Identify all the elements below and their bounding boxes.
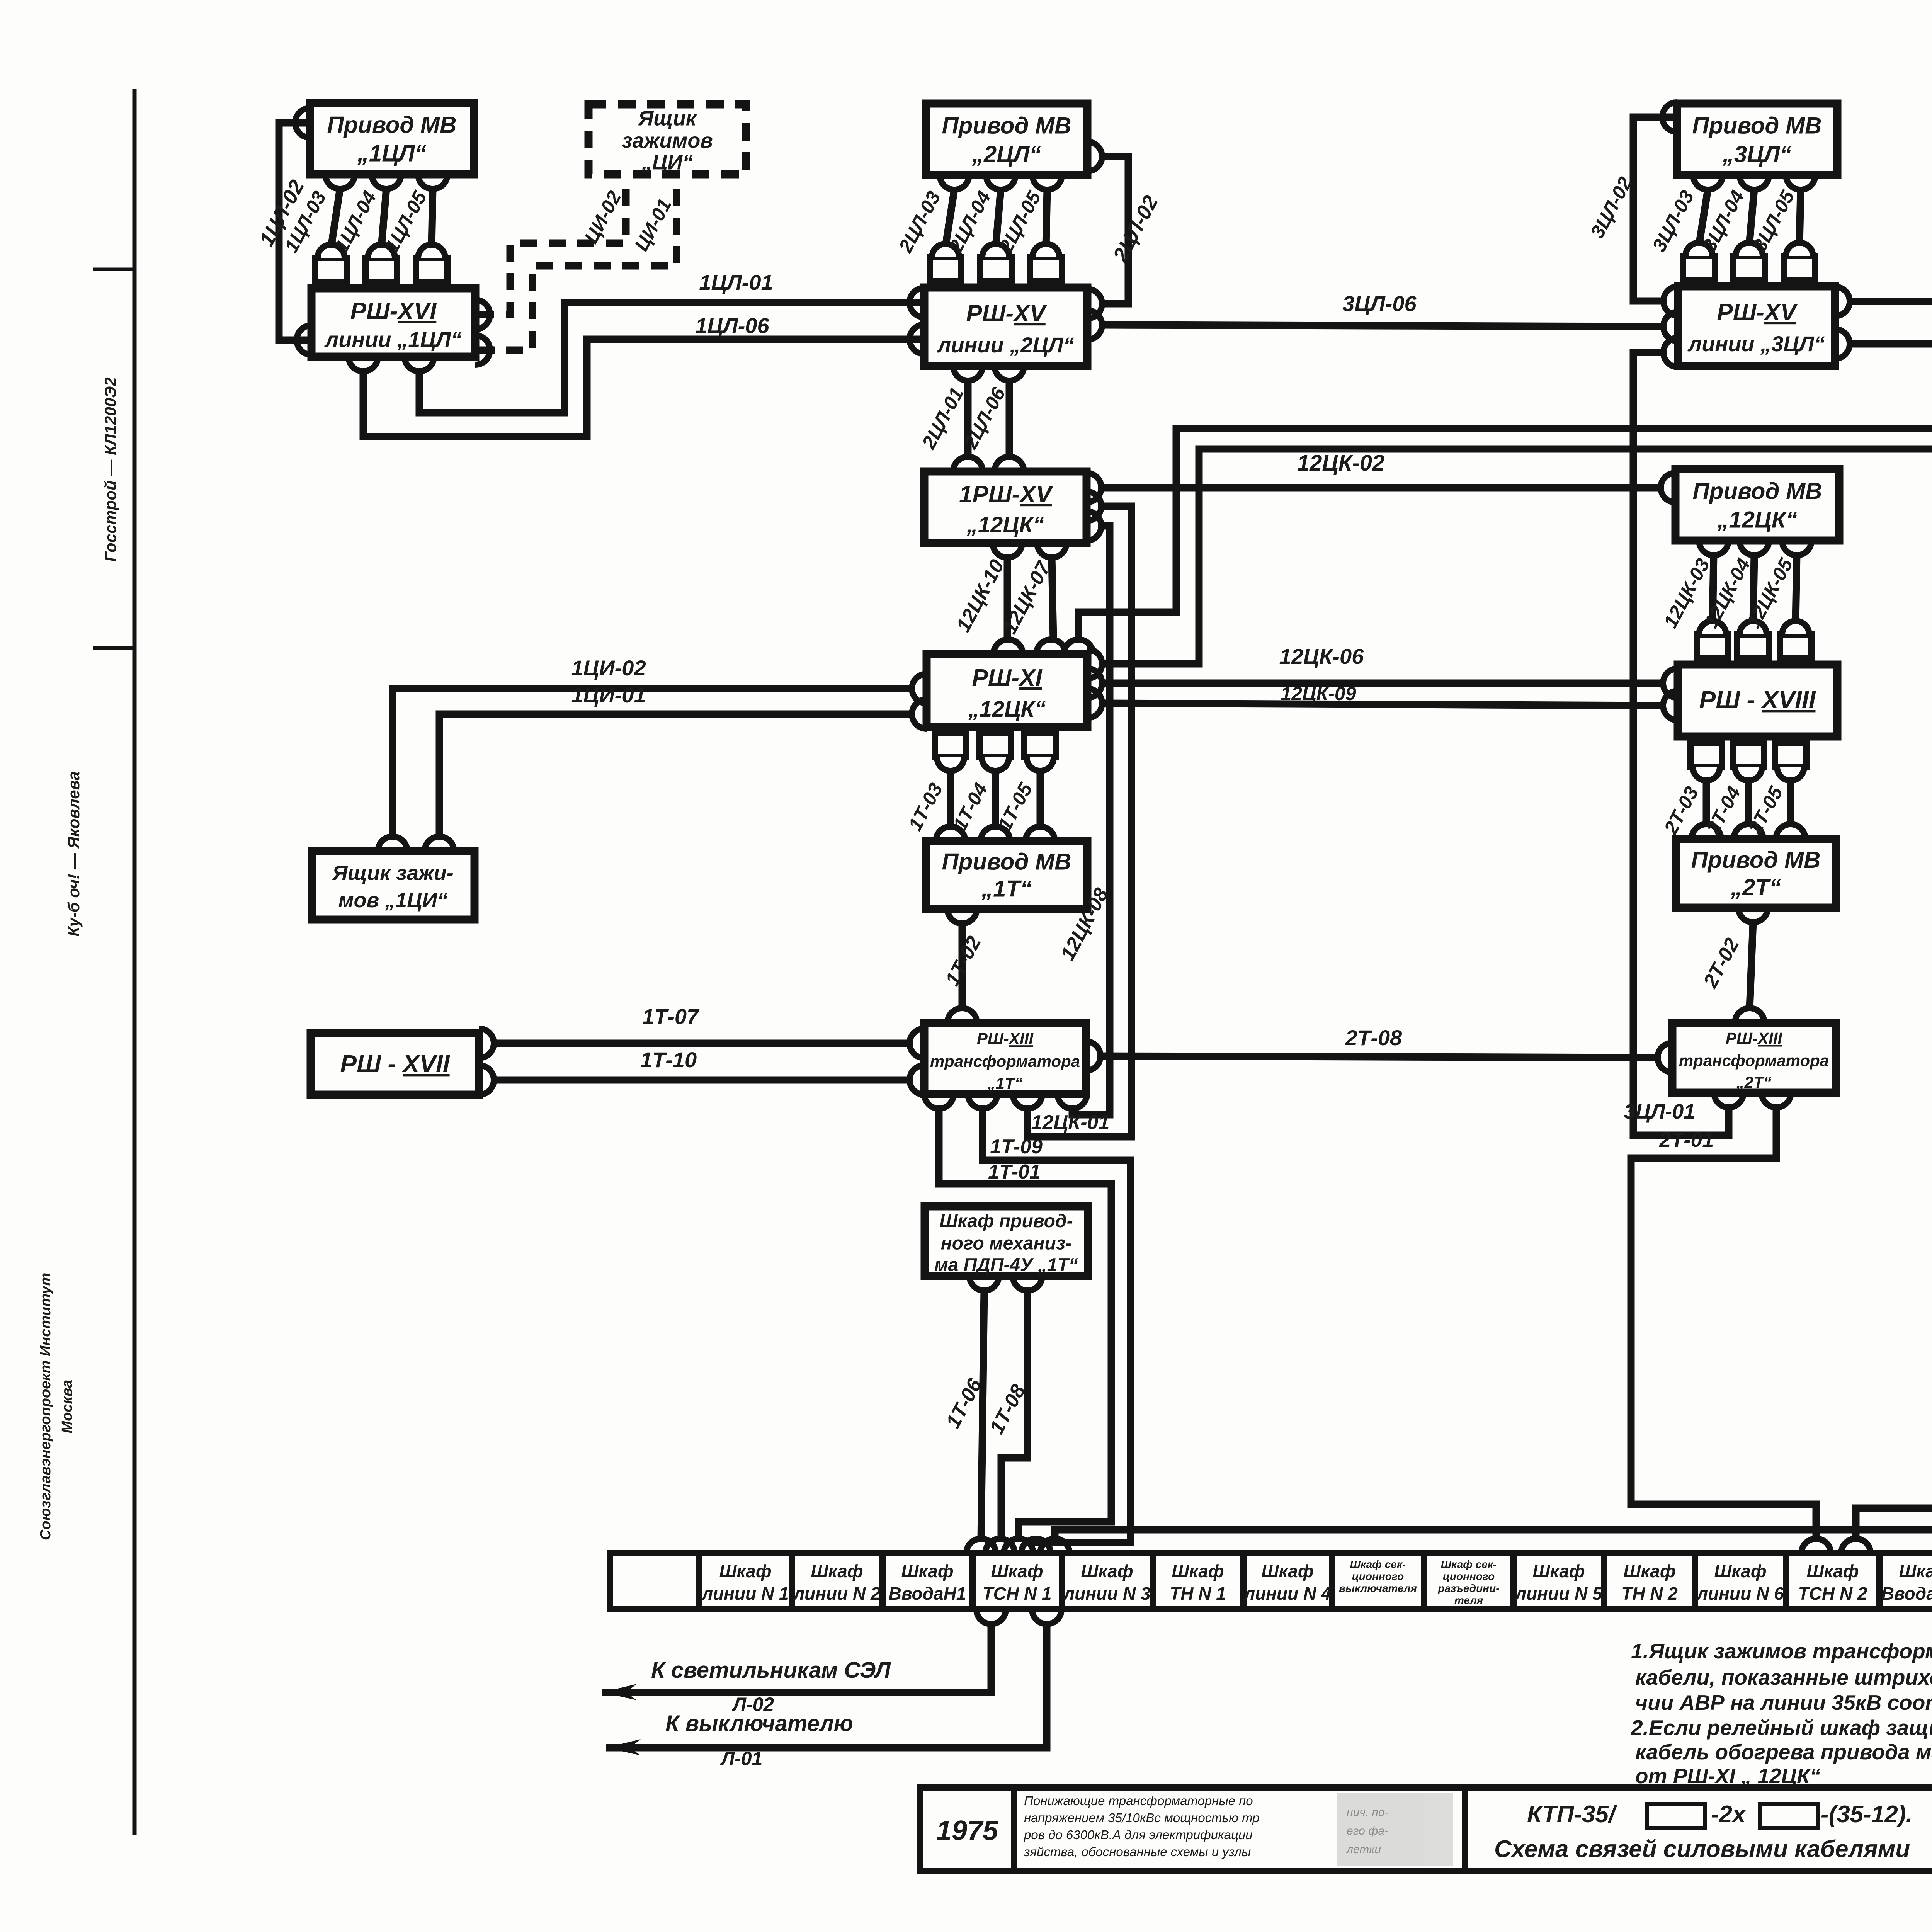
svg-text:Шкаф: Шкаф	[1899, 1561, 1932, 1581]
wire 1ЦЛ-06	[363, 339, 924, 437]
bump РШ-XVI 1ЦЛ left	[297, 325, 311, 355]
svg-text:его фа-: его фа-	[1347, 1825, 1388, 1837]
wire 2Т-08	[1100, 1056, 1658, 1058]
wire 1ЦЛ-02	[279, 123, 311, 340]
svg-text:ционного: ционного	[1443, 1570, 1495, 1582]
svg-text:линии N 3: линии N 3	[1063, 1583, 1150, 1604]
box РШ-XVIII	[1678, 665, 1837, 736]
bump Привод МВ 2ЦЛ right	[1087, 142, 1102, 171]
wire 1Т-06	[981, 1290, 984, 1539]
bumps Привод МВ 1Т top	[936, 827, 965, 841]
svg-text:выключателя: выключателя	[1339, 1582, 1417, 1594]
svg-text:ВводаН1: ВводаН1	[889, 1583, 966, 1604]
svg-text:летки: летки	[1346, 1843, 1381, 1856]
svg-text:РШ - XVIII: РШ - XVIII	[1699, 686, 1816, 714]
svg-text:линии N 5: линии N 5	[1514, 1583, 1602, 1604]
cell Шкаф ВводаН1	[889, 1561, 966, 1604]
cell Шкаф ТН N 1	[1170, 1561, 1226, 1604]
title block stamp smudge	[1337, 1793, 1453, 1866]
cell Шкаф ТСН N 1	[983, 1561, 1052, 1604]
cell Шкаф линии N 6	[1696, 1561, 1784, 1604]
svg-text:Москва: Москва	[59, 1380, 75, 1434]
svg-text:КТП-35/: КТП-35/	[1527, 1801, 1617, 1828]
cable lug + wire 3ЦЛ-04	[1698, 187, 1765, 280]
wire 2ЦИ-01 run	[1078, 429, 1932, 1022]
svg-text:1975: 1975	[936, 1815, 998, 1846]
svg-text:РШ-XV: РШ-XV	[1717, 299, 1798, 326]
bumps Шкаф ТСН N1 top	[966, 1539, 996, 1553]
box Привод МВ 2Т	[1676, 839, 1836, 908]
svg-text:„2Т“: „2Т“	[1736, 1073, 1771, 1091]
bumps Привод МВ 1ЦЛ bottom	[325, 174, 355, 189]
cable lug + wire 2ЦЛ-03	[895, 187, 961, 281]
wire 1Т-01	[939, 1108, 1111, 1539]
svg-text:разъедини-: разъедини-	[1437, 1582, 1499, 1594]
svg-text:линии N 6: линии N 6	[1696, 1583, 1784, 1604]
cable lug + wire 1Т-03	[904, 733, 966, 834]
svg-text:3ЦЛ-01: 3ЦЛ-01	[1624, 1100, 1696, 1123]
wire 3ЦЛ-01	[1633, 352, 1729, 1135]
bump Привод МВ 3ЦЛ left	[1662, 102, 1677, 132]
svg-text:Привод МВ: Привод МВ	[942, 113, 1071, 139]
svg-text:12ЦК-01: 12ЦК-01	[1031, 1111, 1110, 1134]
bumps РШ-XV 2ЦЛ left	[910, 288, 924, 317]
svg-text:кабель обогрева привода мас: кабель обогрева привода масляного выключ…	[1635, 1740, 1932, 1764]
svg-text:Ввода N 2: Ввода N 2	[1881, 1583, 1932, 1604]
box РШ-XIII трансформатора 1Т	[924, 1023, 1086, 1094]
cable lug + wire 1ЦЛ-04	[330, 187, 397, 282]
wire 2Т-06	[1055, 1293, 1932, 1539]
bumps 1РШ-XV right	[1087, 473, 1101, 502]
svg-text:ционного: ционного	[1352, 1570, 1404, 1582]
box РШ-XV линии 3ЦЛ	[1678, 286, 1835, 366]
cable lug + wire 1ЦЛ-03	[280, 187, 347, 282]
svg-text:линии „2ЦЛ“: линии „2ЦЛ“	[936, 333, 1074, 357]
title block small description text	[1024, 1794, 1259, 1859]
title block designation КТП-35	[1527, 1801, 1913, 1828]
box Привод МВ 12ЦК	[1675, 469, 1839, 541]
svg-text:1ЦИ-02: 1ЦИ-02	[571, 656, 646, 680]
svg-text:РШ-XVI: РШ-XVI	[350, 298, 437, 325]
wire 4ЦЛ-06	[1849, 344, 1932, 426]
cell Шкаф линии N 3	[1063, 1561, 1150, 1604]
bumps РШ-XV 3ЦЛ left	[1663, 286, 1678, 316]
bumps РШ-XVI 1ЦЛ bottom	[349, 357, 378, 371]
cell Шкаф сек- ционного выключателя	[1339, 1558, 1417, 1594]
svg-text:ма ПДП-4У „1Т“: ма ПДП-4У „1Т“	[934, 1255, 1078, 1275]
svg-text:К выключателю: К выключателю	[665, 1711, 853, 1736]
bumps РШ-XI top	[993, 639, 1023, 654]
bumps РШ-XV 2ЦЛ bottom	[953, 366, 983, 381]
cell Шкаф ТН N 2	[1621, 1561, 1678, 1604]
svg-text:Понижающие трансформаторные по: Понижающие трансформаторные по	[1024, 1794, 1253, 1808]
wire 2Т-01	[1631, 1107, 1816, 1539]
svg-text:теля: теля	[1454, 1594, 1483, 1606]
bumps Привод МВ 2ЦЛ bottom	[940, 175, 969, 190]
cell Шкаф линии N 5	[1514, 1561, 1602, 1604]
svg-text:ТСН N 2: ТСН N 2	[1798, 1583, 1867, 1604]
svg-text:Союзглавэнергопроект Институт: Союзглавэнергопроект Институт	[37, 1273, 54, 1540]
wire 1ЦИ-02	[393, 689, 912, 837]
wire 12ЦК-07	[1052, 557, 1053, 640]
svg-text:Госстрой — КЛ1200Э2: Госстрой — КЛ1200Э2	[101, 377, 119, 561]
wire 3ЦЛ-02	[1633, 117, 1677, 301]
bumps РШ-XIII 1Т bottom	[924, 1094, 954, 1109]
svg-text:ТН N 2: ТН N 2	[1621, 1583, 1678, 1604]
svg-text:1ЦЛ-06: 1ЦЛ-06	[695, 313, 769, 338]
svg-text:Привод МВ: Привод МВ	[1691, 847, 1821, 873]
cable lug + wire 1ЦЛ-05	[381, 187, 447, 282]
svg-text:„2Т“: „2Т“	[1730, 874, 1781, 900]
title block frame	[920, 1787, 1932, 1871]
bumps Привод МВ 2Т top	[1692, 824, 1721, 839]
svg-text:ров до 6300кВ.А для электрифик: ров до 6300кВ.А для электрификации	[1024, 1828, 1253, 1842]
bumps Шкаф ТСН N2 top	[1801, 1539, 1831, 1553]
svg-text:Ку-б оч! — Яковлева: Ку-б оч! — Яковлева	[65, 771, 83, 937]
wire 1Т-09	[983, 1108, 1131, 1543]
dashed wire ЦИ-02 (left)	[475, 189, 626, 315]
svg-text:Ящик зажи-: Ящик зажи-	[332, 861, 454, 884]
box РШ-XVI линии 1ЦЛ	[311, 288, 475, 357]
box Привод МВ 1Т	[926, 841, 1087, 909]
wire 4ЦЛ-01	[1849, 301, 1932, 402]
bumps РШ-XV 3ЦЛ right	[1835, 287, 1850, 316]
bumps Привод МВ 3ЦЛ bottom	[1693, 175, 1723, 190]
svg-text:„1ЦЛ“: „1ЦЛ“	[357, 141, 426, 167]
svg-text:„2ЦЛ“: „2ЦЛ“	[972, 141, 1041, 167]
svg-text:от РШ-XI „ 12ЦК“: от РШ-XI „ 12ЦК“	[1635, 1764, 1821, 1788]
left margin rotated annotation 3	[37, 1273, 75, 1540]
bumps РШ-XIII 2Т bottom	[1714, 1093, 1743, 1107]
svg-text:-(35-12).: -(35-12).	[1821, 1801, 1913, 1828]
wire 1Т-08	[1001, 1290, 1027, 1539]
bottom row cell dividers	[699, 1553, 1932, 1609]
wire Л-02 к светильникам	[602, 1624, 991, 1692]
svg-text:„3ЦЛ“: „3ЦЛ“	[1722, 141, 1791, 167]
cable lug + wire 2ЦЛ-04	[945, 187, 1012, 281]
svg-text:Привод МВ: Привод МВ	[942, 849, 1071, 875]
arrowhead К светильникам	[602, 1684, 637, 1700]
svg-text:1Т-01: 1Т-01	[988, 1161, 1041, 1183]
wire 1Т-07	[493, 1040, 910, 1047]
svg-text:Шкаф сек-: Шкаф сек-	[1350, 1558, 1406, 1570]
box Привод МВ 1ЦЛ	[310, 103, 474, 174]
svg-text:1.Ящик зажимов трансформатор: 1.Ящик зажимов трансформатора напряжения…	[1631, 1639, 1932, 1663]
svg-text:ТН N 1: ТН N 1	[1170, 1583, 1226, 1604]
wire 1РШ-XV to РШ-XIII 1Т (12ЦК)	[1027, 506, 1131, 1137]
svg-text:ного механиз-: ного механиз-	[941, 1233, 1072, 1254]
svg-text:-2х: -2х	[1711, 1801, 1747, 1828]
box РШ-XI 12ЦК	[927, 654, 1087, 727]
cable lug + wire 3ЦЛ-05	[1748, 186, 1815, 280]
svg-text:зажимов: зажимов	[622, 129, 713, 152]
svg-text:нич. по-: нич. по-	[1347, 1806, 1389, 1819]
svg-text:трансформатора: трансформатора	[930, 1052, 1080, 1070]
box РШ-XIII трансформатора 2Т	[1672, 1023, 1836, 1093]
svg-text:„1Т“: „1Т“	[981, 876, 1032, 902]
wire 12ЦК-01	[1072, 526, 1110, 1115]
svg-text:1Т-10: 1Т-10	[640, 1048, 697, 1072]
wire 2ЦЛ-06	[1006, 380, 1013, 457]
svg-text:РШ-XIII: РШ-XIII	[977, 1029, 1034, 1048]
cell Шкаф Ввода N 2	[1881, 1561, 1932, 1604]
dashed wire ЦИ-01 (left)	[475, 189, 677, 350]
svg-text:12ЦК-02: 12ЦК-02	[1297, 451, 1384, 476]
wire 12ЦК-06	[1102, 680, 1663, 687]
svg-text:РШ-XIII: РШ-XIII	[1726, 1029, 1782, 1047]
cable lug + wire 2Т-03	[1660, 743, 1722, 838]
wire 2ЦЛ-01	[964, 380, 972, 457]
wire 2ЦЛ-02	[1102, 156, 1128, 304]
svg-text:12ЦК-09: 12ЦК-09	[1281, 683, 1356, 704]
cable lug + wire 1Т-05	[994, 733, 1056, 834]
svg-text:Л-01: Л-01	[720, 1748, 763, 1769]
svg-text:Шкаф: Шкаф	[719, 1561, 771, 1581]
svg-text:мов „1ЦИ“: мов „1ЦИ“	[338, 889, 448, 912]
svg-text:напряжением 35/10кВс мощностью: напряжением 35/10кВс мощностью тр	[1024, 1811, 1259, 1825]
wire 2ЦИ-02 run	[1102, 449, 1932, 1045]
svg-text:„12ЦК“: „12ЦК“	[968, 697, 1046, 722]
svg-text:линии N 4: линии N 4	[1243, 1583, 1331, 1604]
svg-text:Шкаф: Шкаф	[1261, 1561, 1313, 1581]
svg-text:Шкаф: Шкаф	[1172, 1561, 1224, 1581]
svg-text:„ЦИ“: „ЦИ“	[641, 151, 693, 174]
wire 1Т-10	[493, 1077, 910, 1084]
bumps РШ-XI left	[912, 674, 927, 703]
svg-text:трансформатора: трансформатора	[1679, 1051, 1829, 1070]
bump Привод МВ 12ЦК left	[1661, 473, 1675, 502]
wire 1ЦИ-01	[439, 714, 912, 837]
svg-text:1РШ-XV: 1РШ-XV	[959, 481, 1054, 508]
svg-text:2Т-08: 2Т-08	[1345, 1026, 1402, 1050]
bumps РШ-XVIII left	[1663, 668, 1678, 698]
cell Шкаф ТСН N 2	[1798, 1561, 1867, 1604]
wire 12ЦК-09	[1102, 703, 1663, 706]
bump РШ-XIII 1Т right	[1086, 1041, 1100, 1071]
box 1РШ-XV 12ЦК	[924, 471, 1087, 543]
svg-text:линии „1ЦЛ“: линии „1ЦЛ“	[324, 327, 461, 352]
svg-text:Привод МВ: Привод МВ	[327, 112, 457, 138]
box Ящик зажимов 1ЦИ	[312, 851, 474, 920]
box Привод МВ 2ЦЛ	[926, 104, 1087, 175]
svg-text:линии N 2: линии N 2	[793, 1583, 880, 1604]
sheet frame left border	[133, 89, 137, 1835]
bump РШ-XIII 2Т left	[1658, 1043, 1672, 1072]
cell Шкаф линии N 1	[701, 1561, 789, 1604]
cell Шкаф линии N 4	[1243, 1561, 1331, 1604]
bumps РШ-XVI 1ЦЛ right	[475, 300, 490, 329]
bumps РШ-XV 2ЦЛ right	[1087, 289, 1102, 318]
svg-text:„12ЦК“: „12ЦК“	[966, 512, 1044, 537]
box Ящик зажимов ЦИ (left, dashed)	[588, 104, 746, 174]
wire 2Т-02	[1750, 922, 1753, 1009]
svg-text:1ЦЛ-01: 1ЦЛ-01	[699, 270, 773, 294]
wire 1ЦЛ-01	[419, 303, 924, 413]
arrowhead К выключателю	[606, 1739, 641, 1755]
cable lug + wire 12ЦК-03	[1659, 555, 1728, 658]
bumps РШ-XVII right	[479, 1029, 494, 1058]
box Привод МВ 3ЦЛ	[1677, 104, 1837, 175]
svg-text:2Т-01: 2Т-01	[1659, 1128, 1714, 1151]
svg-text:линии „3ЦЛ“: линии „3ЦЛ“	[1687, 332, 1825, 356]
left border tick marks	[93, 269, 134, 648]
svg-text:12ЦК-06: 12ЦК-06	[1279, 644, 1364, 668]
bump Привод МВ 2Т bottom	[1738, 908, 1768, 922]
bump Привод МВ 1Т bottom	[947, 909, 977, 923]
bump РШ-XIII 1Т top	[947, 1008, 977, 1023]
svg-text:Шкаф: Шкаф	[901, 1561, 953, 1581]
bumps РШ-XIII 1Т left	[910, 1029, 924, 1058]
svg-text:Шкаф: Шкаф	[811, 1561, 863, 1581]
svg-text:РШ - XVII: РШ - XVII	[340, 1050, 450, 1078]
wire 1Т-02	[959, 923, 966, 1009]
box РШ-XV линии 2ЦЛ	[924, 287, 1087, 366]
cable lug + wire 2Т-05	[1744, 743, 1806, 838]
svg-text:„1Т“: „1Т“	[987, 1074, 1022, 1092]
svg-text:2.Если релейный шкаф защит: 2.Если релейный шкаф защиты линии 35кВ н…	[1631, 1716, 1932, 1740]
bump РШ-XIII 2Т top	[1735, 1008, 1764, 1023]
bumps ПДП-4У 1Т bottom	[969, 1276, 999, 1291]
svg-text:Шкаф: Шкаф	[1081, 1561, 1133, 1581]
cable lug + wire 12ЦК-05	[1742, 554, 1811, 658]
cell Шкаф линии N 2	[793, 1561, 880, 1604]
bumps Привод МВ 12ЦК bottom	[1699, 541, 1728, 555]
cable lug + wire 1Т-04	[949, 733, 1011, 834]
svg-text:3ЦЛ-06: 3ЦЛ-06	[1342, 291, 1417, 316]
svg-text:1Т-07: 1Т-07	[642, 1004, 700, 1029]
svg-text:Шкаф сек-: Шкаф сек-	[1441, 1558, 1497, 1570]
svg-text:Шкаф привод-: Шкаф привод-	[939, 1211, 1073, 1231]
svg-text:РШ-XI: РШ-XI	[972, 665, 1043, 691]
svg-text:ТСН N 1: ТСН N 1	[983, 1583, 1052, 1604]
cable lug + wire 2ЦЛ-05	[995, 187, 1062, 281]
svg-text:К светильникам СЭЛ: К светильникам СЭЛ	[651, 1658, 891, 1683]
svg-text:Ящик: Ящик	[638, 107, 697, 130]
svg-text:Привод МВ: Привод МВ	[1693, 478, 1822, 504]
bumps РШ-XI right	[1087, 649, 1102, 679]
svg-text:1ЦИ-01: 1ЦИ-01	[571, 683, 646, 707]
svg-text:Шкаф: Шкаф	[1714, 1561, 1766, 1581]
svg-text:Привод МВ: Привод МВ	[1692, 113, 1822, 139]
wire 12ЦК-02	[1101, 484, 1661, 492]
bumps Ящик 1ЦИ top	[378, 837, 407, 851]
svg-text:чии АВР на линии 35кВ соот: чии АВР на линии 35кВ соответствующей се…	[1635, 1690, 1932, 1714]
svg-text:зяйства, обоснованные схемы и: зяйства, обоснованные схемы и узлы	[1024, 1845, 1251, 1859]
svg-text:РШ-XV: РШ-XV	[966, 300, 1047, 327]
bump Привод МВ 1ЦЛ left	[295, 108, 310, 138]
wire 3ЦЛ-06	[1102, 325, 1664, 327]
wire 12ЦК-10	[1004, 557, 1011, 640]
box Шкаф приводного механизма ПДП-4У 1Т	[925, 1206, 1088, 1276]
wire 2Т-07	[1856, 1293, 1932, 1539]
svg-text:линии N 1: линии N 1	[701, 1583, 789, 1604]
svg-text:1Т-09: 1Т-09	[990, 1136, 1043, 1158]
cable lug + wire 3ЦЛ-03	[1648, 187, 1715, 280]
bottom switchgear row outline	[610, 1553, 1932, 1609]
svg-text:Шкаф: Шкаф	[1623, 1561, 1675, 1581]
svg-text:кабели, показанные штриховой: кабели, показанные штриховой линией, про…	[1635, 1665, 1932, 1689]
cell Шкаф сек- ционного разъедини- теля	[1437, 1558, 1499, 1606]
svg-text:Шкаф: Шкаф	[1532, 1561, 1585, 1581]
svg-text:Схема связей силовыми ка: Схема связей силовыми кабелями	[1494, 1836, 1910, 1862]
bumps 1РШ-XV top	[953, 457, 983, 471]
box РШ-XVII	[311, 1033, 479, 1095]
bumps 1РШ-XV bottom	[993, 543, 1022, 558]
wire Л-01 к выключателю	[606, 1624, 1047, 1748]
cable lug + wire 12ЦК-04	[1700, 555, 1769, 658]
svg-text:Шкаф: Шкаф	[991, 1561, 1043, 1581]
bumps Шкаф ТСН N1 bottom	[976, 1609, 1006, 1624]
svg-text:Шкаф: Шкаф	[1806, 1561, 1859, 1581]
svg-text:„12ЦК“: „12ЦК“	[1717, 507, 1797, 533]
cable lug + wire 2Т-04	[1702, 743, 1764, 838]
